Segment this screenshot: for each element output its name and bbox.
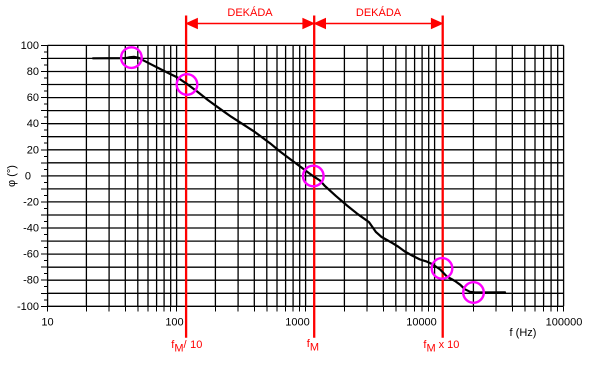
axis ticks: [41, 45, 564, 311]
svg-text:φ (°): φ (°): [6, 165, 18, 187]
red marker line fM: [313, 16, 315, 338]
x-axis labels: [41, 317, 582, 329]
svg-text:-60: -60: [23, 249, 39, 261]
svg-text:100: 100: [165, 317, 183, 329]
decade arrow 2: [315, 19, 442, 28]
phase curve: [93, 57, 505, 293]
svg-text:-100: -100: [17, 301, 39, 313]
svg-text:DEKÁDA: DEKÁDA: [227, 6, 273, 19]
svg-text:f (Hz): f (Hz): [510, 327, 537, 339]
svg-text:100: 100: [21, 40, 39, 52]
decade arrow 1: [187, 19, 313, 28]
red marker line fM/10: [185, 16, 187, 338]
point marker 5: [463, 282, 484, 303]
svg-text:-40: -40: [23, 223, 39, 235]
svg-text:10000: 10000: [406, 317, 437, 329]
svg-text:40: 40: [27, 118, 39, 130]
svg-text:10: 10: [41, 317, 53, 329]
svg-text:80: 80: [27, 66, 39, 78]
point marker 2: [177, 74, 198, 95]
svg-text:60: 60: [27, 92, 39, 104]
point marker 4: [432, 258, 453, 279]
svg-text:1000: 1000: [285, 317, 309, 329]
svg-text:0: 0: [25, 170, 31, 182]
point marker 3: [303, 166, 324, 187]
svg-text:-20: -20: [23, 196, 39, 208]
svg-text:20: 20: [27, 144, 39, 156]
svg-text:100000: 100000: [546, 317, 583, 329]
svg-text:DEKÁDA: DEKÁDA: [356, 6, 402, 19]
svg-text:-80: -80: [23, 275, 39, 287]
y-axis labels: [17, 40, 39, 313]
red marker line fM x10: [442, 16, 444, 338]
point marker 1: [121, 47, 142, 68]
